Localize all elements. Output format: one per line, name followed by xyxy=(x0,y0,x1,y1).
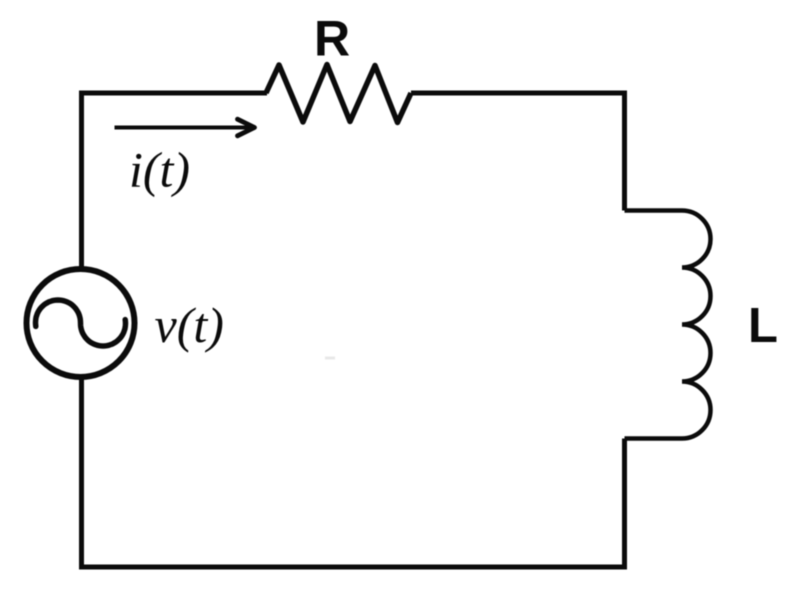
wire top-left segment xyxy=(79,91,267,96)
current arrow i(t) head xyxy=(238,119,255,136)
svg-text:L: L xyxy=(748,299,778,353)
AC source sine waveform xyxy=(36,300,126,346)
svg-text:i(t): i(t) xyxy=(129,142,190,198)
wire right vertical lower xyxy=(622,439,627,570)
svg-text:R: R xyxy=(314,11,350,67)
inductor L xyxy=(625,211,711,439)
wire left vertical upper xyxy=(79,91,84,271)
wire left vertical lower xyxy=(79,376,84,570)
AC source U1 circle xyxy=(27,269,135,377)
svg-text:v(t): v(t) xyxy=(155,297,224,353)
wire bottom horizontal xyxy=(79,565,627,570)
resistor R xyxy=(266,65,411,123)
current arrow i(t) shaft xyxy=(115,126,252,130)
wire top-right segment xyxy=(411,91,627,96)
wire right vertical upper xyxy=(622,91,627,211)
faint smudge artifact xyxy=(325,357,335,360)
